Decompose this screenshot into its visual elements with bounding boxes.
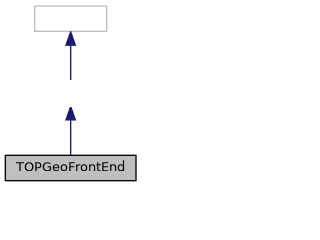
wire inheritance arrow from TOPGeoFrontEnd up to TOPGeoBase (midnightblue, arrowhead + shaft): [62, 107, 80, 156]
label TOPGeoFrontEnd (node caption text): [15, 160, 125, 171]
wire inheritance arrow from TOPGeoBase up to TObject (midnightblue, arrowhead + shaft): [65, 34, 77, 80]
node TObject (empty undocumented base-class box, grey outline): [34, 5, 108, 34]
node TOPGeoFrontEnd (grey-filled box with black border): [4, 154, 137, 182]
